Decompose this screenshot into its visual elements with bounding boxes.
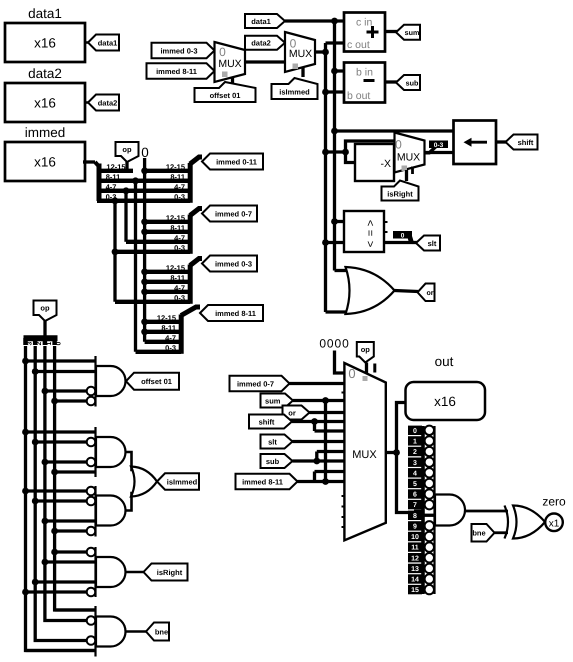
svg-text:c out: c out <box>347 39 370 51</box>
tunnel isImmed (G4 output) <box>157 473 199 490</box>
svg-text:shift: shift <box>259 417 275 426</box>
tunnel data2 (from pin) <box>85 101 89 104</box>
svg-text:2: 2 <box>36 341 43 345</box>
wire G2 output to or <box>126 452 136 470</box>
subtractor U2 (b in / b out) <box>344 63 385 103</box>
wire slt trunk <box>412 241 417 244</box>
splitter C2 (builds immed 0-7) legs+trunk <box>188 215 193 254</box>
shifter U4 (barrel shifter) <box>454 121 497 165</box>
svg-text:3: 3 <box>413 460 417 467</box>
tunnel offset 01 (G1 output) <box>126 373 179 390</box>
wire immed 4-7 vertical tap <box>124 191 127 242</box>
tunnel sum (adder output) <box>396 25 420 40</box>
wire bus A vertical (data1) <box>333 21 336 271</box>
svg-text:5: 5 <box>413 481 417 488</box>
splitter S2 trunk (op bits 3..0) <box>24 335 58 341</box>
comparator U5 (> = <) <box>344 211 384 252</box>
svg-text:0-3: 0-3 <box>434 142 444 149</box>
and gate G6 rows (bne decode) <box>55 608 96 611</box>
xor gate G8 (zero/bne) <box>505 506 509 539</box>
wire op leg 3 <box>26 346 96 651</box>
mux M4 unused input stubs <box>342 392 345 394</box>
svg-text:x1: x1 <box>549 518 560 529</box>
svg-text:immed 8-11: immed 8-11 <box>156 67 197 76</box>
svg-text:data1: data1 <box>98 38 118 47</box>
tunnel isImmed (M2 select) <box>272 78 318 99</box>
svg-text:9: 9 <box>413 523 417 530</box>
svg-text:isImmed: isImmed <box>167 477 198 486</box>
svg-text:immed 0-7: immed 0-7 <box>237 379 274 388</box>
wire op leg 1 <box>45 346 87 621</box>
wire op leg 0 <box>55 346 96 610</box>
wire bus B vertical <box>324 43 327 312</box>
wire bus A to or-gate in1 <box>335 269 351 272</box>
tunnel op (M4 select) <box>357 342 374 363</box>
svg-text:data2: data2 <box>28 66 62 81</box>
svg-text:15: 15 <box>411 587 419 594</box>
tunnel sub (subtractor output) <box>396 75 420 90</box>
wire M3 output to shifter distance <box>425 151 454 154</box>
svg-text:6: 6 <box>413 492 417 499</box>
svg-text:c in: c in <box>356 17 373 29</box>
svg-text:-X: -X <box>381 158 392 170</box>
wire immed 8-11 strap <box>313 472 316 482</box>
wire immed 0-3 vertical tap <box>113 201 116 302</box>
svg-text:MUX: MUX <box>289 48 312 60</box>
svg-text:isImmed: isImmed <box>279 87 310 96</box>
tunnel sum (M4 input) <box>261 394 294 408</box>
tunnel data1 (to adder path) <box>245 14 285 28</box>
svg-text:immed 0-11: immed 0-11 <box>216 157 257 166</box>
wire immed 8-11 vertical tap <box>134 181 137 352</box>
splitter SP5 (result bits 0-15) <box>414 510 424 517</box>
tunnel isRight (M3 select) <box>382 181 419 201</box>
tunnel shift (M4 input) <box>249 415 292 429</box>
wire bus B to comparator in2 <box>326 241 345 244</box>
mux M2 (operand B select) <box>285 32 315 72</box>
wire M1 select stub <box>231 77 234 86</box>
wire bus B to adder in2 <box>326 41 345 44</box>
wire slt row <box>293 440 345 443</box>
wire immed 8-11 row <box>298 480 345 483</box>
wire or output <box>395 291 419 292</box>
and gate G1 rows (offset 01 decode) <box>26 359 96 362</box>
svg-text:isRight: isRight <box>387 189 413 198</box>
svg-text:<: < <box>365 241 377 247</box>
tunnel immed 8-11 (output) <box>200 305 263 321</box>
wire bus A to subtractor in1 <box>335 69 345 72</box>
tunnel or (M4 input) <box>283 406 310 420</box>
wire bus A to comparator in1 <box>335 220 345 223</box>
wire subtractor output <box>385 80 397 83</box>
svg-text:0: 0 <box>395 138 402 152</box>
tunnel immed 0-7 (output) <box>202 206 257 222</box>
and gate G3 rows (isImmed decode b) <box>26 489 87 492</box>
svg-text:sum: sum <box>405 28 420 37</box>
wire G6 output <box>126 630 148 633</box>
splitter SP3 (0-3 of shift amount) <box>425 146 439 155</box>
wire C3 output diagonal <box>190 259 202 266</box>
tunnel immed 0-3 (output) <box>202 256 257 272</box>
tunnel shift (shifter output) <box>506 135 538 150</box>
wire G7 output to xor <box>465 510 508 513</box>
wire to MUX M3 input 0 <box>346 141 395 152</box>
negator U3 (-X) <box>355 144 394 181</box>
wire sum strap to second input <box>324 401 327 482</box>
svg-text:8: 8 <box>413 513 417 520</box>
wire shifter output <box>496 140 507 143</box>
wire op to splitter S2 <box>43 321 46 336</box>
wire op leg 2 <box>35 346 87 641</box>
tunnel op (to op splitter) <box>34 301 57 322</box>
tunnel isRight (G5 output) <box>144 564 188 581</box>
svg-text:or: or <box>427 290 434 297</box>
tunnel bne (to xor) <box>472 524 495 542</box>
wire C4 output diagonal <box>181 307 200 316</box>
svg-text:0: 0 <box>401 232 405 239</box>
svg-text:sum: sum <box>265 396 281 405</box>
wire M4 output <box>386 451 397 454</box>
tunnel immed 8-11 (M4 input) <box>236 474 298 490</box>
adder U1 (c in / c out) <box>344 13 385 52</box>
wire M3 select stub <box>405 170 408 181</box>
svg-text:14: 14 <box>411 577 419 584</box>
and gate G6 (bne) <box>94 606 96 657</box>
wire M2 output to bus B <box>315 50 326 53</box>
svg-text:10: 10 <box>411 534 419 541</box>
wire op to M4 select <box>365 363 368 375</box>
splitter C1 (builds immed 0-11) legs+trunk <box>188 163 193 203</box>
svg-text:data1: data1 <box>251 17 271 26</box>
svg-text:sub: sub <box>266 457 280 466</box>
and gate G3 (isImmed b) <box>94 486 96 537</box>
svg-text:x16: x16 <box>34 96 56 111</box>
output pin out (x16) <box>406 382 486 420</box>
svg-text:13: 13 <box>411 566 419 573</box>
wire C2 output diagonal <box>190 209 202 216</box>
svg-text:sub: sub <box>406 78 419 87</box>
splitter C3 (builds immed 0-3) legs+trunk <box>188 265 193 304</box>
svg-text:0: 0 <box>56 341 63 345</box>
wire 0-constant vertical <box>143 158 146 342</box>
wire or row <box>310 411 345 414</box>
wire to negator input <box>346 152 357 163</box>
wire to out pin <box>397 403 406 453</box>
tunnel immed 0-3 (to MUX M1 input 0) <box>152 43 215 59</box>
tunnel sub (M4 input) <box>261 454 293 468</box>
wire op leg <box>125 162 128 171</box>
svg-text:MUX: MUX <box>397 152 420 164</box>
svg-text:4: 4 <box>413 470 417 477</box>
svg-text:data2: data2 <box>251 39 271 48</box>
wire M1 output to M2 input 1 <box>245 60 285 63</box>
svg-text:b out: b out <box>347 90 370 102</box>
svg-text:MUX: MUX <box>352 449 377 461</box>
svg-text:immed 8-11: immed 8-11 <box>215 309 256 318</box>
splitter C4 (builds immed 8-11 low) legs+trunk <box>179 315 184 354</box>
svg-text:offset 01: offset 01 <box>210 91 241 100</box>
wire M2 select stub <box>301 67 304 77</box>
and gate G7 (zero detect) <box>433 426 435 594</box>
wire shift row <box>292 420 344 423</box>
tunnel immed 8-11 (to MUX M1 input 1) <box>147 63 215 79</box>
svg-text:0: 0 <box>219 45 226 59</box>
svg-text:2: 2 <box>413 449 417 456</box>
svg-text:x16: x16 <box>34 155 56 170</box>
svg-text:bne: bne <box>155 627 168 636</box>
svg-text:=: = <box>365 230 377 236</box>
svg-text:11: 11 <box>411 545 419 552</box>
svg-text:0: 0 <box>141 145 149 160</box>
wire data1 row to adder <box>285 19 344 22</box>
svg-text:offset 01: offset 01 <box>141 377 172 386</box>
svg-text:slt: slt <box>428 239 437 248</box>
tunnel slt (M4 input) <box>261 435 293 449</box>
tunnel offset 01 (M1 select) <box>195 82 256 102</box>
tunnel immed 0-11 (output) <box>202 154 263 170</box>
svg-text:immed 0-3: immed 0-3 <box>160 46 197 55</box>
or gate U6 (bitwise or) <box>346 267 395 314</box>
svg-text:0: 0 <box>348 366 355 381</box>
input pin data1 (x16) <box>5 23 85 62</box>
svg-text:0: 0 <box>413 428 417 435</box>
svg-text:>: > <box>365 220 377 226</box>
svg-text:3: 3 <box>27 341 34 345</box>
mux M1 (immediate nibble select) <box>215 42 246 82</box>
wire 0000 to M4 <box>335 351 345 374</box>
tunnel bne (G6 output) <box>146 623 169 641</box>
tunnel slt (comparator output) <box>416 236 440 251</box>
svg-text:b in: b in <box>356 67 373 79</box>
svg-text:immed 0-7: immed 0-7 <box>215 209 252 218</box>
svg-text:MUX: MUX <box>218 58 241 70</box>
wire sum row <box>293 399 344 402</box>
input pin immed (x16) <box>5 142 85 181</box>
wire sub strap <box>315 452 318 462</box>
svg-text:immed 0-3: immed 0-3 <box>215 259 252 268</box>
svg-text:out: out <box>435 354 454 369</box>
svg-text:immed: immed <box>25 125 66 140</box>
tunnel immed 0-7 (M4 input) <box>230 376 290 392</box>
and gate G7 inverted-input bubbles <box>425 426 434 435</box>
wire to zero splitter <box>397 453 419 513</box>
svg-text:1: 1 <box>46 341 53 345</box>
wire immed pin to splitter <box>83 160 95 163</box>
mux M3 (shift amount negate select) <box>395 133 425 173</box>
svg-text:shift: shift <box>518 138 534 147</box>
wire C1 output diagonal <box>190 157 202 164</box>
wire bus B to negate/mux <box>326 150 346 153</box>
svg-text:data2: data2 <box>98 98 118 107</box>
wire bus A to shifter data input <box>335 129 454 132</box>
svg-text:bne: bne <box>472 529 485 538</box>
wire shift strap <box>313 422 316 432</box>
svg-text:x16: x16 <box>34 36 56 51</box>
wire sub row <box>293 459 345 462</box>
mux M4 (result select, 16-way) <box>344 363 385 540</box>
svg-text:slt: slt <box>268 437 277 446</box>
svg-text:or: or <box>288 408 296 417</box>
svg-text:12: 12 <box>411 555 419 562</box>
wire immed 0-7 row <box>290 382 345 385</box>
tunnel op (immed 12-15 = opcode) <box>116 142 139 162</box>
and gate G5 (isRight) <box>94 547 96 597</box>
tunnel data1 (from pin) <box>85 41 89 44</box>
and gate G1 (offset 01) <box>94 356 96 407</box>
svg-text:1: 1 <box>413 439 417 446</box>
svg-text:immed 8-11: immed 8-11 <box>242 477 283 486</box>
and gate G2 (isImmed a) <box>94 427 96 477</box>
svg-text:data1: data1 <box>28 6 62 21</box>
and gate G5 rows (isRight decode) <box>55 550 87 553</box>
splitter S1 trunk (immed 16-bit into 4 nibbles) <box>97 164 102 202</box>
svg-text:x16: x16 <box>434 394 456 409</box>
wire comparator less-than output <box>384 241 412 244</box>
splitter SP4 (bit 0 = slt) <box>407 236 414 243</box>
wire bus B to or-gate in2 <box>326 310 351 313</box>
tunnel or (or-gate output) <box>418 284 435 302</box>
svg-text:op: op <box>361 345 371 354</box>
svg-text:isRight: isRight <box>157 568 183 577</box>
svg-text:op: op <box>40 304 50 313</box>
and gate G2 rows (isImmed decode a) <box>26 430 96 433</box>
tunnel data2 (to MUX M2 input 0) <box>245 36 285 50</box>
or gate G4 (isImmed) <box>131 467 157 497</box>
wire bne to xor <box>495 531 509 534</box>
wire result bit 8 to and gate <box>424 514 435 517</box>
wire adder output <box>385 30 397 33</box>
wire bus B to subtractor in2 <box>326 90 345 93</box>
svg-text:0000: 0000 <box>319 337 349 351</box>
input pin data2 (x16) <box>5 83 85 122</box>
wire G5 output <box>126 571 145 574</box>
svg-text:zero: zero <box>542 495 566 509</box>
svg-text:7: 7 <box>413 502 417 509</box>
svg-text:op: op <box>122 145 132 154</box>
wire G3 output to or <box>126 493 136 511</box>
